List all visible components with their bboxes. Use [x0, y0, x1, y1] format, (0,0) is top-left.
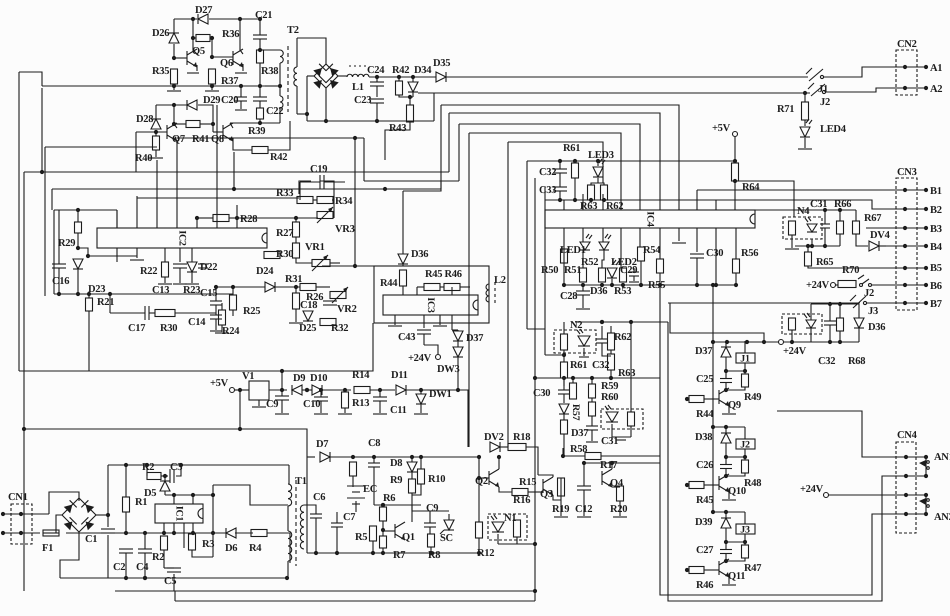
wire [164, 523, 193, 548]
svg-text:R63: R63 [618, 368, 635, 379]
wire [457, 357, 459, 390]
op-amp IC3 [383, 295, 478, 315]
svg-text:D39: D39 [695, 517, 712, 528]
wire [232, 287, 234, 295]
resistor R28 [213, 215, 229, 222]
capacitor C7 [331, 523, 343, 527]
wire [452, 329, 458, 331]
wire [562, 448, 564, 456]
node [314, 551, 433, 555]
wire [417, 286, 470, 288]
wire [198, 105, 213, 132]
wire [376, 103, 378, 121]
resistor R44 [400, 270, 407, 286]
svg-text:C30: C30 [533, 388, 550, 399]
wire [174, 105, 177, 128]
wire [174, 123, 186, 125]
svg-text:CN2: CN2 [897, 39, 917, 50]
switch J1 [806, 68, 824, 81]
diode D25 [303, 311, 313, 321]
ground [338, 413, 352, 415]
resistor R64 [732, 163, 739, 181]
svg-text:R42: R42 [392, 65, 409, 76]
wire [591, 398, 593, 402]
resistor R53 [620, 268, 627, 282]
wire [135, 132, 137, 172]
node [375, 119, 379, 123]
wire [320, 401, 322, 413]
optocoupler N5 [782, 314, 822, 334]
diode D10 [312, 385, 322, 395]
wire [108, 464, 289, 466]
wire [867, 302, 886, 304]
capacitor C30 [690, 254, 704, 258]
wire [379, 401, 381, 413]
svg-text:R50: R50 [541, 265, 558, 276]
wire [117, 105, 237, 228]
wire [299, 181, 311, 194]
svg-text:R41: R41 [192, 134, 209, 145]
wire [507, 142, 509, 447]
wire [54, 293, 233, 295]
ground [576, 308, 590, 310]
resistor R10 [418, 469, 425, 484]
diode D11 [396, 385, 406, 395]
button symbol 1 [919, 460, 929, 469]
svg-text:Q3: Q3 [540, 489, 553, 500]
svg-text:J2: J2 [820, 97, 830, 108]
capacitor C22 [253, 97, 267, 101]
resistor R18 [508, 444, 526, 451]
resistor R4 [251, 530, 267, 537]
wire [448, 514, 450, 520]
wire [144, 553, 146, 578]
wire [412, 484, 421, 495]
wire [382, 521, 384, 536]
wire [165, 494, 213, 496]
wire [583, 463, 585, 486]
svg-text:AN2: AN2 [934, 512, 950, 523]
connector CN1 [11, 504, 32, 544]
wire [175, 600, 535, 602]
wire [829, 304, 831, 321]
svg-text:D11: D11 [391, 370, 408, 381]
resistor R24 [219, 310, 226, 325]
op-amp IC4 [545, 210, 755, 228]
svg-text:+5V: +5V [210, 378, 229, 389]
wire [560, 500, 562, 516]
wire [582, 250, 584, 268]
wire [744, 449, 746, 460]
wire [306, 76, 308, 121]
wire [601, 326, 603, 339]
resistor R57 [570, 383, 577, 399]
wire [835, 284, 838, 286]
node [214, 285, 235, 289]
wire [411, 472, 413, 479]
wire [582, 295, 584, 308]
wire [858, 304, 860, 318]
wire [330, 456, 479, 458]
resistor R_n3 [628, 412, 635, 426]
wire [379, 390, 381, 397]
thyristor SC [440, 520, 454, 534]
wire [175, 312, 216, 314]
wire [459, 124, 640, 210]
svg-text:R20: R20 [610, 504, 627, 515]
resistor R54 [638, 247, 645, 261]
ground [629, 281, 639, 283]
resistor R22 [162, 262, 169, 277]
wire [60, 532, 79, 578]
resistor R62 [601, 185, 608, 200]
svg-text:EC: EC [363, 484, 377, 495]
wire [630, 322, 632, 412]
resistor R31 [300, 284, 316, 291]
resistor R66 [837, 221, 844, 234]
wire [564, 190, 697, 210]
diode D22z [187, 262, 197, 272]
wire [41, 88, 43, 172]
resistor R6 [380, 507, 387, 521]
node [562, 376, 613, 380]
wire [856, 234, 868, 246]
node [124, 531, 215, 535]
diode D36b [854, 318, 864, 328]
bridge rectifier D1-D4 [62, 498, 96, 532]
svg-text:R6: R6 [383, 493, 395, 504]
resistor R71 [802, 102, 809, 120]
wire [559, 161, 561, 169]
wire [574, 178, 576, 200]
ground [414, 413, 428, 415]
svg-text:B5: B5 [930, 263, 942, 274]
ground [205, 90, 219, 92]
wire [458, 390, 468, 447]
svg-text:R17: R17 [600, 460, 617, 471]
resistor R_ec [350, 462, 357, 476]
wire [213, 485, 288, 505]
wire [409, 97, 411, 105]
wire [52, 188, 441, 190]
diode D36c [398, 254, 408, 264]
svg-text:D27: D27 [195, 5, 212, 16]
wire [146, 465, 148, 476]
svg-text:R53: R53 [614, 286, 631, 297]
svg-text:D37: D37 [571, 428, 588, 439]
resistor R20 [617, 486, 624, 501]
diode D_c30 [559, 404, 569, 414]
capacitor C20 [235, 97, 247, 101]
wire [839, 234, 841, 246]
diode D37 [721, 347, 731, 357]
wire [726, 370, 745, 372]
LED in N3 [605, 405, 618, 422]
ground [130, 259, 144, 261]
wire [174, 495, 193, 504]
wire [704, 398, 719, 400]
node [351, 455, 481, 459]
resistor R2 [147, 473, 161, 480]
ground [577, 516, 591, 518]
ground [785, 248, 799, 250]
svg-text:C21: C21 [255, 10, 272, 21]
node [195, 216, 239, 220]
wire [866, 227, 886, 229]
subcircuit box IC3 [374, 266, 489, 323]
diode D34 [408, 82, 418, 92]
wire [269, 389, 287, 391]
capacitor C21 [253, 35, 267, 39]
wire [534, 178, 536, 601]
wire [704, 484, 719, 486]
terminal +5V [733, 132, 738, 137]
resistor R25 [230, 295, 237, 310]
wire [336, 512, 338, 523]
wire [839, 304, 841, 318]
wire [713, 341, 778, 343]
svg-text:R36: R36 [222, 29, 239, 40]
wire [824, 228, 826, 246]
wire [233, 152, 235, 189]
transistor transistor Q9 [719, 388, 729, 406]
svg-text:DV2: DV2 [484, 432, 504, 443]
svg-text:C14: C14 [188, 317, 206, 328]
wire [811, 303, 859, 305]
node [558, 159, 606, 202]
wire [259, 39, 261, 50]
wire [216, 286, 265, 288]
svg-text:R44: R44 [380, 278, 398, 289]
wire [725, 357, 727, 378]
wire [744, 534, 746, 545]
wire [612, 436, 631, 438]
resistor R_n4 [789, 221, 796, 235]
svg-text:B6: B6 [930, 281, 942, 292]
resistor R26 [293, 293, 300, 309]
svg-text:C8: C8 [368, 438, 380, 449]
wire [824, 210, 826, 224]
LED LED3 [593, 159, 605, 177]
wire [399, 95, 413, 97]
svg-text:D29: D29 [203, 95, 220, 106]
transistor transistor Q5 [187, 49, 197, 67]
ground [187, 72, 199, 74]
wire [659, 273, 661, 285]
LED in N2 [577, 329, 590, 346]
LED in N1 [491, 515, 504, 532]
svg-text:Q6: Q6 [220, 58, 233, 69]
resistor R70 [838, 281, 856, 288]
wire [687, 569, 689, 571]
wire [807, 246, 809, 252]
connector CN3 [896, 178, 917, 310]
inductor L1 [347, 66, 369, 77]
resistor R44 [689, 396, 704, 403]
wire [242, 64, 244, 71]
node [533, 376, 537, 593]
svg-text:C25: C25 [696, 374, 713, 385]
svg-text:DW1: DW1 [429, 389, 451, 400]
resistor R13 [342, 392, 349, 408]
ground [173, 283, 187, 285]
wire [418, 93, 434, 121]
terminal +24Ve [824, 493, 829, 498]
wire [144, 533, 146, 549]
wire [176, 465, 181, 476]
wire [696, 258, 698, 285]
ground [289, 322, 303, 324]
wire [755, 209, 856, 211]
svg-text:R54: R54 [643, 245, 661, 256]
wire [137, 197, 299, 199]
resistor R63 [588, 185, 595, 200]
svg-text:C23: C23 [354, 95, 371, 106]
wire [528, 491, 543, 493]
wire [211, 84, 213, 90]
svg-text:R2: R2 [152, 552, 164, 563]
wire [3, 514, 49, 533]
wire [563, 378, 565, 386]
ground [586, 441, 598, 443]
ground [616, 439, 626, 441]
wire [517, 543, 535, 545]
wire [108, 577, 287, 579]
fuse F1 [43, 530, 59, 536]
wire [610, 326, 612, 333]
svg-text:R68: R68 [848, 356, 865, 367]
terminal +24Vc [436, 355, 441, 360]
wire [420, 457, 422, 469]
resistor R7 [380, 536, 387, 548]
wire [376, 86, 378, 97]
resistor R34 [317, 197, 333, 204]
wire [572, 378, 574, 383]
svg-text:C26: C26 [696, 460, 713, 471]
ground [373, 413, 387, 415]
capacitor C31 [820, 224, 830, 228]
wire [155, 130, 157, 136]
svg-text:R18: R18 [513, 432, 530, 443]
resistor R12 [476, 522, 483, 538]
svg-text:C31: C31 [810, 199, 827, 210]
wire [479, 477, 489, 479]
resistor R_n2 [561, 334, 568, 350]
wire [192, 550, 213, 557]
wire [240, 101, 242, 109]
wire [420, 404, 422, 413]
wire [735, 181, 794, 217]
ground [215, 332, 229, 334]
resistor R33 [297, 197, 313, 204]
svg-text:R26: R26 [306, 292, 323, 303]
wire [630, 426, 632, 437]
wire [125, 553, 127, 578]
svg-text:C28: C28 [560, 291, 577, 302]
wire [429, 511, 431, 523]
node [57, 292, 91, 296]
node [124, 576, 147, 580]
wire [469, 133, 621, 210]
resistor R61 [572, 163, 579, 178]
svg-text:R22: R22 [140, 266, 157, 277]
wire [295, 218, 297, 222]
wire [725, 512, 727, 518]
wire [260, 49, 280, 51]
wire [855, 210, 857, 221]
LED LED1 [580, 234, 592, 250]
wire [563, 434, 565, 456]
capacitor C25 [720, 379, 732, 383]
svg-text:D36: D36 [411, 249, 428, 260]
LED LED4 [800, 119, 812, 137]
wire [259, 86, 261, 97]
wire [564, 228, 736, 285]
svg-text:R28: R28 [240, 214, 257, 225]
wire [376, 77, 378, 82]
wire [619, 501, 621, 516]
resistor R62b [608, 333, 615, 350]
node [823, 208, 842, 212]
wire [601, 321, 668, 323]
svg-text:R34: R34 [335, 196, 353, 207]
relay coil J3 [736, 524, 755, 536]
resistor R47 [742, 545, 749, 558]
capacitor C1 [101, 529, 115, 533]
wire [725, 341, 727, 347]
wire [322, 265, 374, 267]
svg-text:VR3: VR3 [335, 224, 355, 235]
svg-text:C30: C30 [706, 248, 723, 259]
wire [559, 173, 561, 187]
wire [235, 389, 249, 391]
diode D6 [226, 528, 236, 538]
inductor L2 [486, 282, 495, 304]
terminal +5Vb [230, 388, 235, 393]
wire [300, 181, 320, 183]
svg-text:R23: R23 [183, 285, 200, 296]
svg-text:R9: R9 [390, 475, 402, 486]
resistor R50 [561, 249, 568, 263]
wire [716, 200, 886, 209]
svg-text:AN1: AN1 [934, 452, 950, 463]
wire [307, 552, 479, 554]
svg-text:+24V: +24V [800, 484, 824, 495]
wire [136, 131, 167, 133]
wire [109, 294, 111, 313]
wire [24, 429, 307, 457]
diode D7 [320, 452, 330, 462]
wire [420, 390, 422, 394]
capacitor C27 [720, 550, 732, 554]
svg-text:R4: R4 [249, 543, 262, 554]
svg-text:C13: C13 [152, 285, 169, 296]
node [724, 455, 747, 459]
svg-text:R35: R35 [152, 66, 169, 77]
wire [728, 577, 730, 584]
wire [879, 245, 886, 247]
svg-text:D36: D36 [868, 322, 885, 333]
wire [179, 268, 181, 283]
wire [441, 105, 679, 210]
ground [185, 283, 199, 285]
svg-text:IC3: IC3 [425, 297, 436, 313]
svg-text:T2: T2 [287, 25, 299, 36]
wire [795, 245, 840, 247]
wire [601, 455, 660, 457]
wire [457, 330, 459, 331]
wire [267, 533, 290, 563]
